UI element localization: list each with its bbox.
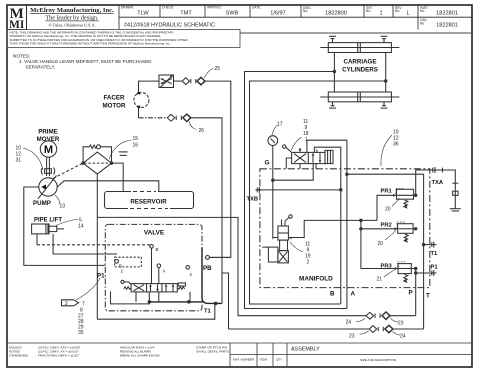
- wire A line to T line top: [347, 174, 424, 329]
- svg-text:31: 31: [16, 158, 22, 164]
- facer motor M1: [134, 91, 149, 110]
- svg-text:The leader by design.: The leader by design.: [45, 15, 99, 22]
- wire drain dashdot facer: [139, 117, 168, 119]
- wire QD row2 right: [393, 328, 424, 330]
- port PB: [203, 256, 231, 273]
- svg-text:DATE:: DATE:: [252, 6, 261, 10]
- svg-text:1822800: 1822800: [325, 10, 347, 16]
- coupling: [41, 168, 55, 175]
- quick disconnect pair row2: [369, 325, 393, 332]
- wire DCV port down left: [111, 292, 150, 304]
- svg-text:MANIFOLD: MANIFOLD: [299, 276, 333, 283]
- svg-text:G: G: [265, 160, 270, 167]
- wire PR2 inlet: [360, 220, 398, 268]
- wire pump suction: [57, 181, 159, 192]
- svg-text:24: 24: [400, 334, 406, 340]
- svg-text:ON ALL DETAIL PARTS: ON ALL DETAIL PARTS: [196, 350, 229, 354]
- valve enclosure dashed box: [105, 224, 202, 310]
- junction DCV left: [148, 301, 150, 303]
- svg-text:P1: P1: [97, 273, 105, 280]
- svg-text:23: 23: [398, 321, 404, 327]
- wire facer motor bottom: [138, 108, 140, 118]
- wire QD row1 right: [390, 315, 416, 317]
- svg-text:T: T: [426, 293, 430, 300]
- wire gauge down: [272, 146, 274, 238]
- wire DCV A down: [158, 292, 160, 302]
- header field values: [124, 10, 458, 28]
- svg-text:14: 14: [78, 224, 84, 230]
- header field labels: [121, 6, 428, 26]
- svg-text:2: 2: [307, 260, 310, 266]
- company name cell: [27, 5, 120, 30]
- svg-text:24: 24: [346, 320, 352, 326]
- wire pump outlet to P1 port: [24, 187, 106, 265]
- junction TXB B line: [340, 189, 342, 191]
- labels 5 14: [78, 218, 84, 230]
- leader 10-12-36: [381, 135, 392, 166]
- quick disconnect pair row1: [366, 312, 390, 319]
- filter bypass check valve: [83, 145, 111, 163]
- wire carriage right to B line: [250, 81, 386, 304]
- label 20 PR1: [385, 198, 399, 213]
- label 25: [204, 66, 220, 78]
- svg-text:SWB: SWB: [226, 10, 239, 16]
- leader 10-12-31: [23, 148, 43, 170]
- wire PR1 outlet: [414, 194, 416, 196]
- T1 fitting manifold: [431, 242, 439, 257]
- wire pipe lift port B: [53, 234, 117, 254]
- pressure reducing valve PR2: [397, 222, 413, 243]
- label 24 row1: [346, 319, 366, 326]
- label 21: [377, 269, 397, 283]
- filter F1: [82, 152, 113, 174]
- junction PR3 P line: [415, 267, 417, 269]
- junction DCV right: [188, 301, 190, 303]
- prime mover motor M: [40, 141, 56, 157]
- svg-text:PRIME: PRIME: [38, 129, 58, 136]
- wire flow control to coupler: [174, 80, 182, 82]
- wire facer bottom to T1: [191, 118, 222, 304]
- wire selector B to A line: [307, 140, 347, 308]
- svg-text:TMT: TMT: [180, 10, 192, 16]
- svg-text:DRAWN:: DRAWN:: [121, 6, 134, 10]
- svg-text:FRACTIONAL DIM'S = ±1/32": FRACTIONAL DIM'S = ±1/32": [38, 354, 79, 358]
- DCV right plug: [178, 283, 185, 286]
- svg-text:20: 20: [385, 207, 391, 213]
- svg-text:PB: PB: [203, 265, 212, 272]
- junction P1 branch: [415, 272, 417, 274]
- svg-text:2: 2: [65, 301, 68, 307]
- svg-text:TXA: TXA: [432, 180, 444, 186]
- leader 15-16: [109, 140, 132, 159]
- svg-text:CARRIAGE: CARRIAGE: [343, 59, 376, 66]
- mid cell blocked: [150, 284, 152, 291]
- svg-text:OTHERWISE:: OTHERWISE:: [9, 354, 29, 358]
- svg-text:APPRV'D:: APPRV'D:: [207, 6, 222, 10]
- labels 10 12 36: [393, 130, 399, 148]
- svg-text:ASSEMBLY: ASSEMBLY: [291, 347, 320, 353]
- facer motor label: [103, 95, 126, 110]
- wire facer top to PB: [205, 81, 231, 257]
- valve handle lever dashed: [115, 257, 142, 267]
- quick disconnect 25: [182, 77, 205, 84]
- leader balloon to P1: [76, 278, 100, 300]
- carriage cylinder top: [320, 43, 399, 53]
- pipe lift cylinder: [32, 224, 64, 234]
- svg-text:T1: T1: [431, 251, 439, 257]
- svg-text:L: L: [406, 10, 409, 16]
- wire valve tank line T1: [149, 248, 222, 304]
- selector lever: [283, 145, 292, 152]
- carriage cylinder bottom vent ports: [329, 102, 388, 108]
- wire TXB to B line: [263, 189, 341, 191]
- svg-text:TLW: TLW: [137, 10, 149, 16]
- junction gauge line: [272, 179, 274, 181]
- wire TXA branch: [416, 170, 431, 195]
- svg-text:21: 21: [377, 277, 383, 283]
- wire QD row1 left: [238, 315, 366, 317]
- X arrows left cell: [294, 154, 306, 163]
- wire pipe lift dashed to valve: [37, 244, 150, 246]
- wire PR3 outlet: [411, 268, 415, 270]
- manifold dashed box: [260, 169, 430, 288]
- carriage cylinder bottom: [320, 92, 399, 102]
- svg-text:PIPE LIFT: PIPE LIFT: [34, 217, 62, 223]
- label 23 row2: [349, 331, 369, 340]
- directional control valve DCV: [131, 284, 177, 292]
- svg-text:SIZE AND DESCRIPTION: SIZE AND DESCRIPTION: [360, 358, 396, 362]
- wire gauge junction loop: [273, 164, 313, 181]
- note 2 text: [13, 54, 152, 70]
- svg-text:25: 25: [215, 66, 221, 72]
- wire filter to tank: [112, 163, 124, 191]
- bottom title block: [7, 343, 472, 367]
- TXA vent breather: [450, 183, 461, 211]
- wire carriage left to A line: [245, 72, 347, 309]
- wire PR1 inlet: [377, 194, 397, 220]
- svg-text:VALVE: VALVE: [144, 230, 165, 237]
- leader 11-9-18-1: [292, 137, 302, 150]
- svg-text:36: 36: [393, 142, 399, 148]
- wire to P1 fitting: [416, 272, 431, 274]
- svg-text:T1: T1: [204, 309, 212, 315]
- wire PR2 outlet: [413, 228, 416, 230]
- wire facer motor top: [139, 81, 160, 93]
- selector inlet stub: [286, 158, 291, 169]
- label 26: [189, 121, 204, 134]
- svg-text:CYLINDERS: CYLINDERS: [342, 67, 378, 74]
- pressure reducing valve PR1: [396, 188, 414, 208]
- svg-text:MAT. NUMBER: MAT. NUMBER: [233, 358, 255, 362]
- svg-text:20: 20: [378, 241, 384, 247]
- carriage cylinders label: [342, 59, 378, 74]
- DCV lever: [121, 280, 131, 284]
- svg-text:16: 16: [133, 143, 139, 149]
- labels 7 8 27 28 29 35: [78, 302, 85, 337]
- callout 2 right: [186, 266, 193, 278]
- left cell X arrows: [134, 285, 145, 291]
- handle pivot circle: [115, 260, 124, 274]
- drive shaft: [47, 157, 50, 176]
- manual valve V2: [262, 215, 292, 263]
- svg-text:PR2: PR2: [381, 223, 392, 229]
- big solid box around valve: [97, 217, 238, 315]
- junction A line TXA branch: [346, 173, 348, 175]
- svg-text:26: 26: [199, 128, 205, 134]
- breather vent: [119, 152, 128, 156]
- svg-text:A: A: [351, 291, 356, 298]
- junction T1: [214, 302, 217, 305]
- valve port A: [157, 264, 167, 284]
- labels 10 12 31: [16, 146, 22, 164]
- wire selector to B line: [314, 147, 340, 304]
- wire manual valve out: [288, 220, 377, 237]
- header field grid: [119, 5, 472, 30]
- svg-text:17: 17: [277, 122, 283, 128]
- label 24 row2: [393, 332, 406, 340]
- TXA fitting: [431, 167, 444, 186]
- junction PR2 P line: [415, 228, 417, 230]
- svg-text:NOTES:: NOTES:: [13, 54, 30, 59]
- selector port marks: [299, 148, 317, 169]
- svg-text:ITEM: ITEM: [260, 358, 268, 362]
- svg-text:B: B: [330, 291, 335, 298]
- svg-text:No:: No:: [366, 9, 371, 13]
- detent box: [325, 150, 333, 163]
- svg-text:P1: P1: [431, 265, 439, 271]
- junction supply PR2: [360, 219, 362, 221]
- carriage cylinder top vent ports: [329, 36, 388, 42]
- svg-text:15: 15: [133, 136, 139, 142]
- prime mover label: [37, 129, 60, 144]
- svg-text:M: M: [44, 144, 53, 156]
- reservoir: [105, 192, 194, 209]
- pump drain dashed to filter: [53, 163, 83, 178]
- svg-text:No:: No:: [395, 9, 400, 13]
- svg-text:1: 1: [379, 10, 382, 16]
- leader 11-9-19-2: [290, 242, 303, 252]
- wire T1 fitting branch: [424, 244, 431, 246]
- junction PR1 P line: [415, 194, 417, 196]
- svg-text:QTY.: QTY.: [276, 358, 283, 362]
- pressure reducing valve PR3: [398, 262, 412, 283]
- labels 11 9 18 1: [303, 119, 309, 143]
- flow control valve: [159, 75, 174, 88]
- pump P1: [38, 176, 57, 199]
- title header block: [7, 5, 472, 31]
- wire pipe lift port A: [36, 234, 38, 245]
- parallel lines right cell: [312, 153, 314, 163]
- svg-text:35: 35: [78, 330, 84, 336]
- svg-text:MOTOR: MOTOR: [103, 103, 126, 110]
- svg-text:PR1: PR1: [381, 189, 393, 195]
- wire QD row2 left: [229, 328, 370, 330]
- wire P line down: [415, 269, 417, 316]
- svg-text:#412/#618 HYDRAULIC SCHEMATI: #412/#618 HYDRAULIC SCHEMATIC: [124, 22, 215, 28]
- svg-text:SEPARATELY.: SEPARATELY.: [26, 65, 56, 70]
- svg-text:1822801: 1822801: [436, 10, 458, 16]
- P1 fitting manifold: [431, 265, 439, 277]
- selector valve 2pos: [292, 150, 333, 163]
- DCV right spring: [177, 287, 184, 289]
- wire TXA vent: [441, 170, 455, 209]
- svg-text:McElroy Manufacturing, Inc.: McElroy Manufacturing, Inc.: [30, 7, 114, 14]
- svg-text:RESERVOIR: RESERVOIR: [130, 198, 167, 205]
- svg-text:23: 23: [349, 334, 355, 340]
- wire T branch: [222, 273, 229, 329]
- svg-text:1822801: 1822801: [436, 23, 458, 29]
- junction T1 branch: [422, 243, 424, 245]
- svg-text:FACER: FACER: [104, 95, 126, 102]
- label 20 PR2: [378, 230, 397, 247]
- wire carriage right side: [385, 53, 387, 93]
- wire carriage left side: [333, 53, 335, 93]
- quick disconnect 26: [167, 114, 191, 121]
- svg-text:CHECK:: CHECK:: [162, 6, 174, 10]
- label 23 row1: [391, 319, 404, 327]
- label 13: [55, 195, 65, 210]
- svg-text:BREAK ALL SHARP EDGES: BREAK ALL SHARP EDGES: [120, 354, 160, 358]
- svg-text:P: P: [409, 290, 413, 297]
- right cell parallel: [165, 284, 167, 291]
- balloon item tag: [62, 300, 79, 307]
- wire PR3 inlet: [361, 267, 398, 270]
- wire P to manual valve: [273, 237, 278, 239]
- leader 5-14: [56, 220, 78, 226]
- svg-text:PUMP: PUMP: [33, 200, 51, 207]
- label 17: [272, 122, 283, 136]
- svg-text:No:: No:: [420, 22, 425, 26]
- svg-text:MOVER: MOVER: [37, 136, 60, 143]
- wire DCV B down: [148, 292, 150, 302]
- proprietary notice block: [7, 30, 240, 70]
- svg-text:No:: No:: [420, 9, 425, 13]
- labels 15 16: [133, 136, 139, 149]
- TXB fitting: [247, 187, 264, 203]
- svg-text:1/6/97: 1/6/97: [270, 10, 286, 16]
- svg-text:13: 13: [60, 204, 66, 210]
- svg-text:No:: No:: [303, 9, 308, 13]
- DCV left spring: [124, 287, 131, 289]
- logo box MMI: [7, 5, 27, 31]
- labels 11 9 19 2: [305, 242, 311, 266]
- svg-text:2. VALVE HANDLE LEVER MDF00: 2. VALVE HANDLE LEVER MDF00077, MUST BE …: [19, 59, 152, 64]
- valve port B: [150, 245, 159, 284]
- pressure gauge G1: [268, 136, 278, 146]
- svg-text:THAN THOSE FOR WHICH IT W: THAN THOSE FOR WHICH IT WAS FURNISHED WI…: [10, 41, 171, 45]
- svg-text:TXB: TXB: [247, 197, 259, 203]
- svg-text:B: B: [156, 247, 159, 252]
